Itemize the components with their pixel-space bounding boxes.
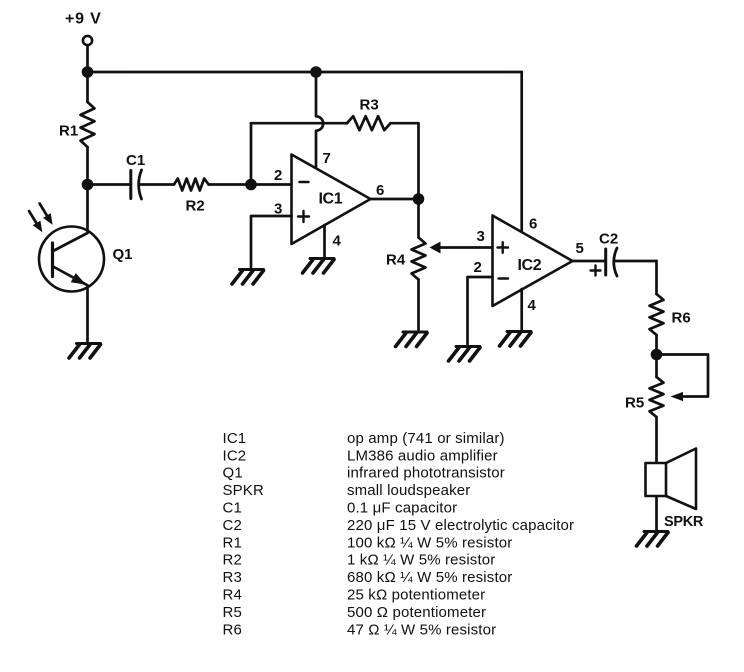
ground at IC1 pin 4 bbox=[303, 259, 335, 274]
capacitor C1 bbox=[88, 183, 130, 186]
svg-text:Q1: Q1 bbox=[113, 246, 133, 263]
svg-text:R6: R6 bbox=[223, 621, 242, 638]
svg-text:+9 V: +9 V bbox=[65, 11, 102, 28]
svg-text:R2: R2 bbox=[186, 198, 205, 215]
wire IC1 output pin 6 to node C bbox=[371, 198, 419, 201]
Q1 collector wire bbox=[86, 185, 89, 233]
svg-text:3: 3 bbox=[477, 228, 485, 245]
wire R5 wiper loop with arrow bbox=[657, 355, 709, 397]
Q1 base bar bbox=[51, 243, 54, 277]
svg-text:220 μF 15 V electrolytic capac: 220 μF 15 V electrolytic capacitor bbox=[347, 517, 574, 534]
op-amp U2 (IC2) bbox=[493, 216, 573, 307]
svg-text:C2: C2 bbox=[599, 231, 618, 248]
node A: junction of R1, C1, Q1 collector bbox=[82, 179, 94, 191]
IC2 plus input symbol bbox=[498, 242, 509, 253]
svg-text:R3: R3 bbox=[223, 569, 242, 586]
svg-text:C2: C2 bbox=[223, 517, 242, 534]
wire IC1 pin 3 to ground bbox=[251, 216, 292, 267]
svg-text:25 kΩ potentiometer: 25 kΩ potentiometer bbox=[347, 587, 485, 604]
svg-text:500 Ω potentiometer: 500 Ω potentiometer bbox=[347, 604, 486, 621]
parts list bbox=[223, 430, 575, 638]
wire IC2 pin6 supply drop bbox=[520, 72, 523, 233]
capacitor C2 electrolytic bbox=[604, 249, 607, 275]
svg-text:R1: R1 bbox=[59, 123, 78, 140]
wire R5 to speaker and ground bbox=[655, 463, 658, 530]
ground at Q1 emitter bbox=[69, 344, 101, 359]
node B: junction at IC1 inverting input bbox=[245, 179, 257, 191]
Q1 light arrow 2 bbox=[40, 204, 49, 220]
svg-text:R6: R6 bbox=[672, 310, 691, 327]
svg-text:R5: R5 bbox=[223, 604, 242, 621]
svg-text:LM386 audio amplifier: LM386 audio amplifier bbox=[347, 447, 498, 464]
svg-text:IC1: IC1 bbox=[223, 430, 247, 447]
svg-text:SPKR: SPKR bbox=[664, 514, 704, 530]
wire IC2 pin 4 to ground bbox=[520, 289, 523, 330]
IC2 minus input symbol bbox=[499, 277, 509, 279]
ground at speaker bbox=[637, 532, 669, 547]
node C: junction R3 / IC1 out / R4 bbox=[413, 193, 425, 205]
wire IC2 pin 5 output bbox=[573, 260, 605, 263]
speaker SPKR bbox=[666, 449, 696, 510]
C2 plus polarity mark bbox=[591, 266, 601, 276]
potentiometer R5 bbox=[655, 355, 658, 378]
resistor R2 bbox=[140, 183, 174, 186]
ground at IC2 pin 4 bbox=[500, 332, 532, 347]
svg-text:SPKR: SPKR bbox=[223, 482, 264, 499]
node: top rail junction to IC1 pin 7 bbox=[310, 66, 322, 78]
svg-text:100 kΩ ¼ W 5% resistor: 100 kΩ ¼ W 5% resistor bbox=[347, 534, 512, 551]
wire IC1 pin7 supply with hop over R3 wire bbox=[316, 72, 323, 169]
svg-text:6: 6 bbox=[529, 216, 537, 233]
svg-text:2: 2 bbox=[474, 259, 482, 276]
svg-text:4: 4 bbox=[528, 297, 537, 314]
transistor Q1 infrared phototransistor bbox=[39, 227, 104, 292]
svg-text:R2: R2 bbox=[223, 552, 242, 569]
svg-text:7: 7 bbox=[323, 150, 331, 167]
svg-text:R3: R3 bbox=[360, 97, 379, 114]
svg-text:1 kΩ ¼ W 5% resistor: 1 kΩ ¼ W 5% resistor bbox=[347, 552, 495, 569]
svg-text:small loudspeaker: small loudspeaker bbox=[347, 482, 470, 499]
svg-text:Q1: Q1 bbox=[223, 465, 243, 482]
svg-text:infrared phototransistor: infrared phototransistor bbox=[347, 465, 505, 482]
resistor R6 bbox=[655, 261, 658, 294]
svg-text:4: 4 bbox=[333, 233, 342, 250]
Q1 emitter with arrow bbox=[54, 267, 88, 285]
svg-text:R4: R4 bbox=[223, 587, 242, 604]
node: top rail junction at R1 bbox=[82, 66, 94, 78]
resistor R1 bbox=[86, 72, 89, 102]
IC1 plus input symbol bbox=[298, 211, 309, 222]
svg-text:0.1 μF capacitor: 0.1 μF capacitor bbox=[347, 500, 457, 517]
wire IC1 pin 4 to ground bbox=[323, 225, 326, 257]
svg-text:R5: R5 bbox=[625, 395, 644, 412]
ground at IC1 pin 3 bbox=[232, 270, 264, 285]
svg-text:6: 6 bbox=[376, 182, 384, 199]
svg-text:47 Ω ¼ W 5% resistor: 47 Ω ¼ W 5% resistor bbox=[347, 621, 496, 638]
resistor R3 feedback bbox=[251, 122, 347, 125]
IC1 minus input symbol bbox=[300, 181, 309, 183]
wire R4 wiper to IC2 pin 3 with arrow bbox=[440, 246, 493, 249]
svg-text:680 kΩ ¼ W 5% resistor: 680 kΩ ¼ W 5% resistor bbox=[347, 569, 512, 586]
wire from +9V terminal to rail bbox=[86, 45, 89, 72]
node D: junction R6 / R5 / wiper loop bbox=[651, 349, 663, 361]
svg-text:op amp (741 or similar): op amp (741 or similar) bbox=[347, 430, 505, 447]
svg-text:2: 2 bbox=[274, 167, 282, 184]
svg-text:IC2: IC2 bbox=[518, 257, 542, 274]
svg-text:R4: R4 bbox=[386, 252, 406, 269]
potentiometer R4 bbox=[417, 199, 420, 238]
svg-text:C1: C1 bbox=[223, 500, 242, 517]
Q1 light arrow 1 bbox=[29, 211, 39, 227]
wire IC2 pin 2 to ground bbox=[468, 277, 493, 344]
svg-text:IC2: IC2 bbox=[223, 447, 247, 464]
svg-text:C1: C1 bbox=[126, 152, 145, 169]
ground at R4 bbox=[396, 332, 428, 347]
svg-text:R1: R1 bbox=[223, 534, 242, 551]
wire node B up to R3 bbox=[250, 123, 253, 184]
wire top supply rail bbox=[88, 71, 522, 74]
wire node B to IC1 pin 2 bbox=[251, 183, 292, 186]
op-amp U1 (IC1) bbox=[292, 155, 371, 245]
svg-text:IC1: IC1 bbox=[319, 191, 343, 208]
ground at IC2 pin 2 bbox=[449, 347, 481, 362]
svg-text:5: 5 bbox=[576, 240, 584, 257]
node +9V supply terminal bbox=[83, 36, 92, 45]
